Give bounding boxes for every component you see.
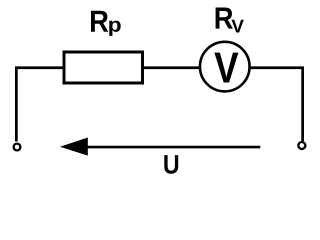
voltage arrow U: head [60, 138, 88, 156]
wire right branch: from voltmeter right and down to right terminal [249, 68, 303, 141]
wire from Rp to voltmeter [143, 66, 201, 69]
resistor Rp [64, 52, 143, 83]
right terminal node [298, 142, 305, 149]
label U [164, 155, 178, 174]
voltage arrow U: shaft [86, 146, 260, 149]
voltmeter V symbol [214, 53, 238, 83]
voltmeter RV (circle body) [200, 42, 250, 92]
label RV [216, 8, 244, 33]
left terminal node [14, 144, 21, 151]
label Rp [91, 11, 121, 36]
wire left branch: from left terminal up and right to resistor Rp [16, 68, 64, 142]
